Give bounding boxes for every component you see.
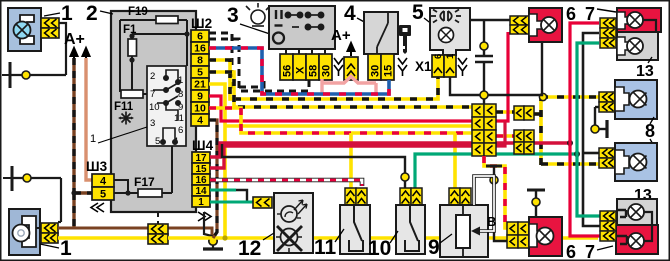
arrow to A+ (wire 1) [71, 48, 78, 62]
svg-text:X: X [295, 66, 307, 74]
lamp 1 (front-left turn signal) housing [8, 8, 41, 51]
junction connector (8-pole) [472, 104, 496, 156]
bulb of repeater 6 top [541, 17, 557, 33]
svg-text:3: 3 [227, 4, 239, 27]
lamp 1 (rear-left turn signal) housing [9, 209, 40, 255]
gauge glyph in item 12 [281, 206, 297, 222]
svg-text:6: 6 [566, 242, 576, 261]
svg-text:3: 3 [150, 118, 155, 129]
ground (bottom middle) [203, 212, 223, 249]
switch 3 position glyphs [273, 10, 284, 44]
svg-text:10: 10 [194, 103, 206, 115]
ground (top-left) [2, 62, 66, 88]
svg-text:56: 56 [282, 65, 294, 77]
label 13 (top) [636, 57, 654, 80]
wire green vertical (right column) [577, 43, 600, 216]
connector arrow mark right of switch 3 pins [334, 58, 343, 76]
wire: pair connector to lamps 8 upper and lower (yellow-black dashed) [534, 93, 599, 165]
svg-text:6: 6 [566, 4, 576, 24]
svg-text:7: 7 [585, 4, 595, 24]
svg-text:8: 8 [197, 55, 203, 67]
side repeater lamp 6 (top) [529, 8, 562, 42]
svg-text:11: 11 [174, 113, 184, 124]
wire Ш2-5 to junction connector (yellow with black dashes) [209, 72, 472, 107]
svg-text:A+: A+ [64, 31, 85, 48]
pins 30 15 of switch 4 [368, 54, 395, 80]
lamp 8 (lower, clearance) [615, 143, 657, 181]
connector of side repeater 6 (top) [510, 16, 529, 34]
side repeater lamp 6 (bottom) [529, 217, 562, 256]
wire node down to junction connector [483, 99, 485, 104]
wire: yellow-red drop to item 11 [349, 133, 353, 188]
svg-text:1: 1 [90, 133, 96, 145]
connector of lamp 8 (lower) [599, 148, 615, 168]
node at hazard ground [480, 91, 488, 99]
lamp icon next to label 3 [246, 3, 270, 26]
svg-text:11: 11 [314, 236, 337, 259]
svg-text:12: 12 [238, 237, 261, 260]
label 11 [314, 229, 344, 259]
connector Ш2 [191, 16, 212, 127]
arrow to A+ (wire 2) [83, 48, 90, 62]
item 12 instrument cluster box [274, 193, 313, 253]
ground (mid-left) [3, 166, 61, 222]
label 2 [86, 2, 113, 25]
svg-text:16: 16 [194, 43, 206, 55]
label 7 (top) [585, 4, 616, 24]
svg-text:X1: X1 [415, 59, 432, 74]
fuse F19 [120, 6, 187, 92]
connector Ш4 [192, 138, 214, 221]
bottom connector under block 2 [148, 212, 168, 244]
connector of item 10 [400, 188, 422, 205]
bulb of lamp 1 front-left [14, 22, 31, 39]
wire brown: rear lamp connector to ground node [58, 228, 212, 236]
arrow marks under Ш3 [91, 203, 104, 212]
pair connector 2 (right of junction) [514, 130, 534, 154]
switch 3 contacts [285, 12, 323, 29]
connector arrow mark right of switch 4 pins [398, 58, 407, 76]
node on black drop to item 10 [401, 173, 409, 181]
label 4 (ignition relay/switch) [344, 2, 368, 25]
connector of lamp 1 front-left [41, 18, 59, 38]
ground (left of bottom repeater) [527, 190, 545, 216]
svg-text:9: 9 [428, 236, 440, 259]
wire: switch5 to repeater connector (black) [470, 19, 510, 21]
label 10 [368, 231, 398, 260]
svg-text:15: 15 [383, 65, 395, 77]
svg-text:13: 13 [636, 63, 654, 80]
svg-text:Ш4: Ш4 [192, 138, 214, 153]
svg-text:1: 1 [60, 237, 72, 260]
svg-text:1: 1 [445, 53, 456, 59]
svg-text:5: 5 [197, 67, 203, 79]
wire Ш2-4 brown-black dashed: down to ground node [209, 120, 217, 238]
fuse F1 [123, 24, 190, 91]
svg-text:5: 5 [155, 136, 160, 147]
wire Ш2-10 to items 11 and 9 (yellow with red dashes) [209, 108, 514, 136]
svg-text:10: 10 [368, 237, 391, 260]
wire black: row down to item 10 [222, 144, 405, 173]
svg-text:1: 1 [198, 197, 204, 208]
connector stack (right rear lamps) [600, 211, 616, 241]
label 1 (rear-left lamp) [40, 237, 72, 260]
pins 56 X 58 30 of switch 3 [280, 54, 333, 80]
svg-text:A+: A+ [331, 27, 351, 44]
item 9 dimmer rheostat box [440, 205, 488, 257]
marker lamp 13 (top) [617, 32, 658, 60]
crossed-out bulb glyph in item 12 [281, 229, 298, 246]
wire: bottom yellow bus (rear lamps feed) [168, 236, 598, 240]
item 10 switch box [396, 205, 425, 254]
label 8 [645, 117, 655, 146]
wire from lamp 1 to ground [59, 23, 66, 75]
node green row joins green vertical [574, 151, 580, 157]
wire Ш4-16 white with red dashes: to item 11 [210, 180, 362, 186]
lamp 8 (upper, clearance) [615, 80, 657, 119]
svg-text:30: 30 [370, 65, 382, 77]
front-right turn lamp 7 (top) [617, 8, 661, 50]
connector Ш3 [86, 159, 114, 212]
wire Ш4-17 crimson: to right column [210, 143, 570, 157]
relay contacts [153, 70, 180, 144]
svg-text:30: 30 [321, 65, 333, 77]
connector of lamp 1 rear-left [36, 223, 58, 243]
label 7 (bottom) [585, 242, 613, 261]
connector of item 11 [345, 188, 367, 205]
bulb of lamp 1 rear-left [13, 225, 30, 242]
wire: junction to pair connector (yellow-black dashed) [496, 110, 514, 114]
wire Ш2-6 to switch3 pin56 (black-white dashed) [209, 33, 264, 87]
arrow marks under Ш4 [198, 212, 211, 221]
node: yellow vertical joins bottom bus [222, 235, 227, 240]
label 5 (hazard switch) [412, 1, 433, 25]
hazard switch bulb [439, 28, 454, 43]
connector stack (right front lamps) [600, 18, 616, 48]
marker lamp 13 (bottom) [617, 199, 657, 225]
hazard indicator symbol in block [118, 112, 134, 125]
wire tan solid: A+ down to Ш3 pin4 [86, 58, 93, 180]
rear-right turn lamp 7 (bottom) [616, 212, 658, 254]
connector of item 12 [253, 197, 272, 208]
label 12 [238, 233, 274, 260]
label 3 (light switch) [227, 4, 270, 34]
svg-text:Ш3: Ш3 [86, 159, 108, 174]
node on ground wire [22, 71, 30, 79]
wire green: down to item 10 and right column [415, 154, 577, 188]
wire Ш4-14 green/black: to item 12 [210, 190, 253, 202]
wire Ш2-8 to connector X1 pin6 (yellow with black dashes) [209, 60, 438, 99]
wire X1-1 black to node [450, 77, 484, 95]
wire brown-black dashed: A+ down to Ш3 pin5 and bottom lamp row [71, 58, 93, 227]
connector of item 9 [449, 188, 471, 205]
svg-text:6: 6 [433, 54, 444, 59]
fuse F11 [114, 90, 147, 113]
node crimson joins red vertical [567, 140, 573, 146]
svg-text:2: 2 [86, 2, 98, 25]
relay K3 (flasher) box [147, 66, 186, 147]
svg-text:4: 4 [197, 115, 203, 127]
svg-text:6: 6 [178, 125, 183, 136]
svg-text:5: 5 [100, 189, 106, 201]
label 13 (bottom) [634, 187, 652, 208]
svg-text:F11: F11 [114, 101, 134, 113]
wire loop with B arrow at item 9 [471, 176, 496, 236]
wire Ш2-6 to switch3 pin58 (black-white dashed) [209, 39, 309, 91]
item 11 switch box [340, 205, 370, 254]
svg-text:6: 6 [197, 31, 203, 43]
connector X1 [415, 53, 456, 77]
svg-text:Ш2: Ш2 [191, 16, 212, 31]
svg-text:5: 5 [412, 1, 424, 24]
wire black vertical (right column) [583, 33, 600, 226]
wire Ш2-16 to switch4 pin15 (blue with red dashes) [209, 48, 389, 94]
wire Ш2-9 red to side repeater 6 (top) [209, 32, 508, 121]
fuse F17 [114, 146, 172, 197]
svg-text:2: 2 [150, 71, 155, 82]
label 1 (front-left lamp) [44, 2, 73, 25]
hazard switch lamp glyphs [431, 10, 461, 23]
connector of lamp 8 (upper) [599, 92, 615, 112]
arrow to A+ near item 4 [348, 43, 355, 56]
wire yellow-red dashed: junction down to side repeater 6 (bottom) [484, 156, 507, 228]
svg-text:9: 9 [197, 91, 203, 103]
single-pin connector (battery feed) [344, 57, 358, 80]
key icon next to switch 4 [399, 25, 411, 54]
svg-text:F17: F17 [134, 175, 155, 189]
connector of side repeater 6 (bottom) [507, 222, 529, 248]
wire red vertical (right column) [570, 23, 600, 236]
wire: yellow mid row to junction connector [225, 124, 472, 128]
switch 4 body [364, 12, 398, 54]
svg-text:7: 7 [585, 242, 595, 261]
hazard switch 5 body [430, 8, 470, 55]
svg-text:21: 21 [194, 79, 206, 91]
wire link between bulbs 13 and 7 bottom [644, 212, 652, 241]
wire Ш4-1 green: to item 12 [210, 201, 253, 204]
label 9 [428, 234, 452, 259]
pair connector 1 (right of junction) [514, 106, 534, 120]
wire yellow: rear lamp connector to middle connector [58, 236, 148, 240]
switch 3 body [269, 6, 335, 49]
fuse-relay unit 2 body [111, 11, 196, 212]
wire: ground return from repeater 6 top [488, 42, 542, 95]
connector arrow mark right of X1 [458, 58, 467, 76]
ground (between right lamps 8) [591, 107, 607, 138]
callout label 1 (relay) [90, 127, 147, 145]
wire Ш4-15 red: second crimson row [210, 146, 472, 168]
wire red: junction branch down [496, 121, 505, 146]
svg-text:F19: F19 [128, 6, 148, 18]
ground (right of item 9) [486, 166, 507, 241]
capacitor at hazard switch [475, 20, 493, 91]
wire black branch to lamp 8 lower [583, 152, 599, 155]
svg-text:1: 1 [61, 2, 73, 25]
svg-text:4: 4 [344, 2, 356, 25]
wire: yellow-red drop to item 9 [453, 133, 457, 188]
svg-text:B: B [487, 214, 496, 229]
svg-text:4: 4 [100, 176, 107, 188]
wire Ш2-21 yellow: down left side to bottom bus [209, 84, 225, 238]
wire: pink battery feed loop at switch 4 [322, 77, 376, 97]
svg-text:58: 58 [308, 65, 320, 77]
